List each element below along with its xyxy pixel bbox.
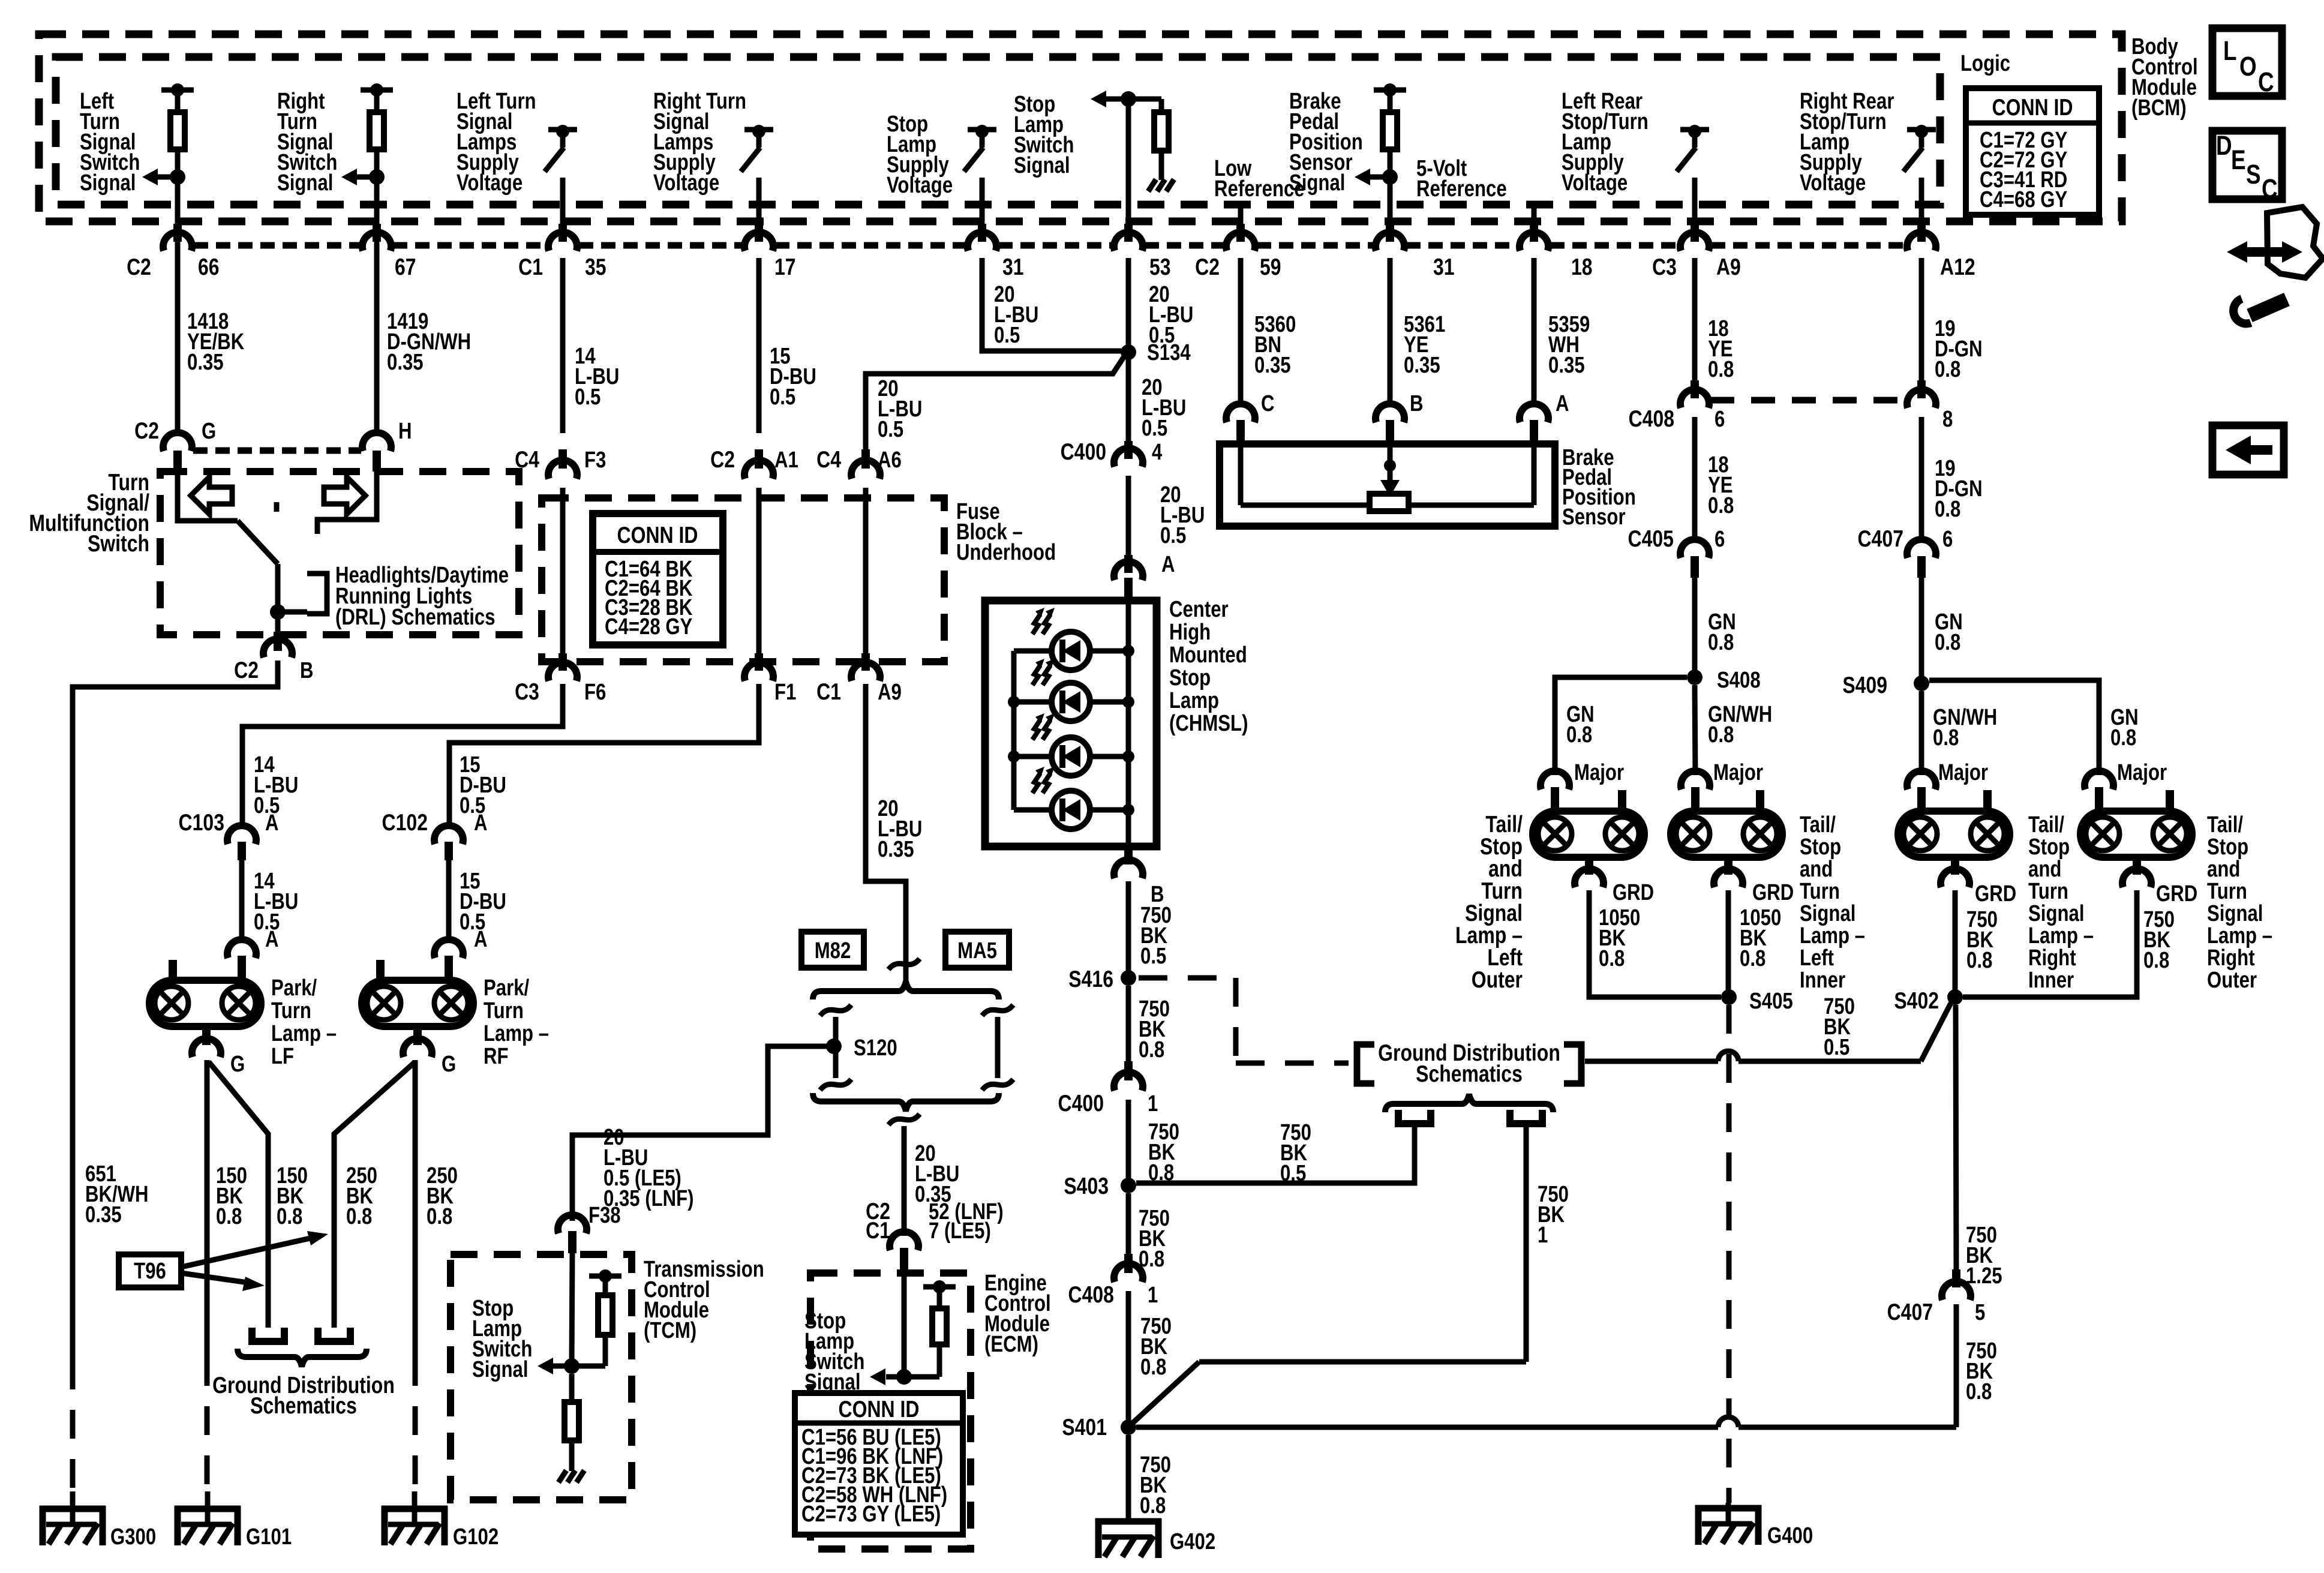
labels C2 C1 52(LNF) 7(LE5)	[866, 1198, 1003, 1244]
wire S409 to lamp right inner	[1919, 691, 1924, 775]
svg-text:Voltage: Voltage	[887, 173, 953, 198]
svg-text:Sensor: Sensor	[1562, 505, 1626, 530]
dashed link C408 6-8	[1710, 397, 1906, 404]
node DRL tap junction	[270, 604, 286, 620]
svg-text:Schematics: Schematics	[1416, 1061, 1523, 1087]
svg-text:GRD: GRD	[2156, 881, 2197, 906]
label G (LF)	[230, 1052, 245, 1077]
label wire 20 L-BU 0.5 (pin53)	[1149, 282, 1193, 348]
svg-text:Inner: Inner	[1800, 968, 1845, 993]
label Left Turn Signal Lamps Supply Voltage	[457, 89, 536, 196]
terminal GDS B	[1510, 1110, 1542, 1124]
module box CHMSL	[985, 601, 1157, 846]
ground internal BCM (stop lamp pull-down)	[1148, 179, 1174, 191]
svg-text:4: 4	[1152, 440, 1163, 465]
label G400	[1767, 1523, 1813, 1548]
svg-text:Stop: Stop	[1169, 665, 1211, 691]
svg-text:A: A	[474, 810, 488, 836]
label wire 750 BK 0.8 (ro)	[2143, 907, 2175, 973]
svg-text:S409: S409	[1842, 672, 1887, 698]
svg-text:0.35: 0.35	[1548, 353, 1585, 378]
wire fuse internal F3-F6	[560, 488, 566, 653]
svg-text:1: 1	[1148, 1091, 1158, 1116]
label wire 5361 YE 0.35	[1404, 312, 1445, 378]
label 8	[1942, 407, 1953, 432]
icon right-turn hollow arrow	[324, 477, 365, 514]
switch right turn signal lamps supply (BCM driver)	[741, 125, 773, 251]
label wire GN 0.8 (ro)	[2110, 705, 2139, 751]
svg-text:Voltage: Voltage	[1800, 170, 1866, 196]
table BCM CONN ID	[1966, 88, 2099, 215]
label wire 750 BK 1.25	[1966, 1223, 2002, 1289]
svg-text:Underhood: Underhood	[956, 540, 1056, 565]
svg-text:A9: A9	[878, 680, 902, 705]
label Ground Distribution Schematics (right)	[1378, 1040, 1560, 1087]
svg-text:C1: C1	[518, 254, 543, 280]
svg-text:and: and	[2028, 857, 2061, 882]
brace lower (M82/MA5)	[813, 1093, 999, 1111]
svg-text:0.35: 0.35	[1254, 353, 1291, 378]
svg-text:Signal: Signal	[277, 170, 333, 196]
label A (C102 pin)	[474, 810, 488, 836]
svg-text:G300: G300	[110, 1524, 156, 1550]
label G101	[246, 1524, 292, 1550]
svg-text:(ECM): (ECM)	[984, 1332, 1038, 1357]
svg-text:Voltage: Voltage	[1562, 170, 1628, 196]
svg-text:C400: C400	[1058, 1090, 1104, 1116]
svg-text:Switch: Switch	[88, 530, 149, 557]
brace GDS right	[1385, 1094, 1553, 1112]
labels C400 4	[1061, 439, 1163, 465]
svg-text:0.8: 0.8	[1935, 497, 1960, 522]
svg-text:(DRL) Schematics: (DRL) Schematics	[335, 605, 496, 630]
table Fuse Block CONN ID	[593, 514, 723, 645]
wire C405-6 to S408	[1692, 578, 1698, 677]
wire S403 to terminal A	[1136, 1126, 1415, 1183]
svg-text:0.35: 0.35	[387, 350, 424, 375]
label wire 20 L-BU 0.35 (ECM)	[915, 1141, 959, 1207]
splice S408	[1687, 670, 1703, 685]
label wire 14 L-BU 0.5 (pin35)	[575, 344, 619, 410]
wire pin 18 (5-volt ref)	[1530, 205, 1538, 242]
svg-text:S402: S402	[1894, 987, 1939, 1014]
icon left-turn hollow arrow	[191, 477, 232, 514]
connector CHMSL pin A	[1114, 562, 1143, 600]
icon wrench	[2233, 299, 2287, 323]
svg-text:0.8: 0.8	[1139, 1037, 1164, 1062]
wire pin35 to fuse F3	[560, 258, 566, 433]
connector C3 pin F6 (fuse bottom)	[548, 653, 577, 681]
wire A9fuse to M82 assembly	[866, 684, 906, 985]
wire S134 branch to fuse A6	[866, 356, 1124, 451]
svg-text:Stop: Stop	[2028, 834, 2070, 860]
label A (C103 pin)	[265, 810, 279, 836]
label Right Rear Stop/Turn Lamp Supply Voltage	[1800, 89, 1894, 196]
wire lamp-ri GRD to S402	[1953, 890, 1958, 990]
svg-text:C407: C407	[1858, 526, 1903, 552]
wire fuse internal A6-A9	[863, 488, 869, 653]
label Park/Turn Lamp - LF	[271, 975, 337, 1069]
terminal ground-distribution left A	[252, 1328, 284, 1341]
label Stop Lamp Supply Voltage	[887, 112, 953, 198]
svg-text:MA5: MA5	[957, 938, 997, 963]
connector tail lamp 2 pin Major	[1681, 771, 1710, 810]
svg-text:G: G	[442, 1052, 456, 1077]
wire pin 67	[373, 177, 381, 433]
labels fuse top connectors	[515, 446, 902, 473]
svg-text:M82: M82	[815, 938, 851, 963]
svg-text:E: E	[2231, 145, 2246, 175]
connector C2 pin B	[263, 632, 292, 658]
svg-text:Turn: Turn	[271, 998, 311, 1023]
svg-text:Logic: Logic	[1960, 51, 2010, 76]
wire LF-G to terminal (150 BK)	[209, 1062, 268, 1328]
svg-text:0.8: 0.8	[1935, 357, 1960, 382]
svg-text:5: 5	[1975, 1300, 1985, 1325]
bracket GDS left	[1357, 1044, 1374, 1083]
lamp tail/stop left outer	[1533, 790, 1644, 857]
labels C407 6	[1858, 526, 1953, 552]
svg-text:31: 31	[1433, 254, 1455, 280]
connector tail lamp GRD (li)	[1714, 857, 1743, 887]
lamp tail/stop left inner	[1671, 790, 1782, 857]
switch left rear stop/turn lamp supply (BCM driver)	[1677, 125, 1709, 251]
svg-text:0.35: 0.35	[187, 350, 224, 375]
svg-text:Reference: Reference	[1416, 176, 1507, 202]
label S416	[1068, 966, 1113, 992]
label A (lamp pin)	[265, 927, 279, 952]
svg-text:0.8: 0.8	[1966, 1379, 1992, 1404]
svg-text:1: 1	[1148, 1283, 1158, 1308]
splice hook above brace	[888, 959, 920, 969]
svg-text:S408: S408	[1717, 668, 1761, 693]
svg-text:1: 1	[1538, 1223, 1548, 1248]
svg-text:Voltage: Voltage	[457, 170, 523, 196]
wire S408 to lamp left outer	[1555, 677, 1687, 775]
connector C4 pin F3 (fuse top)	[548, 449, 577, 479]
wire to CHMSL A	[1124, 476, 1133, 573]
svg-text:67: 67	[395, 254, 416, 280]
svg-text:Right: Right	[2207, 945, 2255, 971]
svg-text:Signal: Signal	[1800, 901, 1855, 926]
svg-text:C: C	[2262, 174, 2278, 204]
label Brake Pedal Position Sensor Signal	[1289, 89, 1363, 196]
svg-text:F38: F38	[588, 1203, 621, 1228]
labels C405 6	[1628, 526, 1725, 552]
svg-text:0.5: 0.5	[770, 385, 795, 410]
svg-text:A: A	[265, 927, 279, 952]
wire RF-G dashed to G102	[413, 1357, 418, 1491]
connector F38	[558, 1215, 587, 1253]
label wire GN/WH 0.8 (ri)	[1933, 705, 1997, 751]
callout box LOC	[2212, 28, 2282, 97]
resistor ECM pull-up	[904, 1280, 956, 1377]
svg-text:F6: F6	[584, 680, 606, 705]
svg-text:53: 53	[1149, 254, 1171, 280]
wire RF-G to terminal (250 BK)	[334, 1062, 415, 1328]
terminal ground-distribution left B	[318, 1328, 350, 1341]
lamp tail/stop right outer	[2080, 790, 2192, 857]
svg-text:CONN ID: CONN ID	[839, 1396, 920, 1422]
labels C2 G H	[134, 418, 412, 444]
connector C103	[227, 825, 256, 860]
led CHMSL 2	[1032, 659, 1090, 721]
label Major 3	[1938, 760, 1988, 785]
label wire 5360 BN 0.35	[1254, 312, 1296, 378]
svg-text:High: High	[1169, 620, 1211, 645]
svg-text:A1: A1	[774, 448, 798, 473]
label Stop Lamp Switch Signal (ECM)	[804, 1308, 864, 1395]
svg-text:T96: T96	[134, 1259, 166, 1284]
svg-text:0.8: 0.8	[2110, 725, 2136, 751]
wire S402 diagonal to GDS	[1585, 1003, 1951, 1061]
label wire 750 BK 0.5 (s402)	[1824, 994, 1855, 1060]
table ECM CONN ID	[795, 1393, 963, 1535]
svg-text:C4=28 GY: C4=28 GY	[605, 614, 692, 640]
svg-text:0.8: 0.8	[216, 1204, 242, 1229]
svg-text:0.8: 0.8	[1708, 722, 1734, 748]
svg-text:LF: LF	[271, 1044, 294, 1069]
label G300	[110, 1524, 156, 1550]
connector C408 pin 8	[1907, 380, 1936, 408]
svg-text:Lamp –: Lamp –	[484, 1021, 549, 1046]
ground G300	[40, 1491, 106, 1545]
label Headlights/Daytime Running Lights (DRL) Schematics	[335, 563, 509, 630]
svg-text:C405: C405	[1628, 526, 1674, 552]
connector C408 pin 6	[1680, 380, 1709, 408]
label wire 5359 WH 0.35	[1548, 312, 1590, 378]
label A (lamp pin RF)	[474, 927, 488, 952]
node ECM junction + arrow	[870, 1368, 912, 1385]
labels C2 B	[234, 657, 313, 683]
label F38	[588, 1203, 621, 1228]
switch right rear stop/turn lamp supply (BCM driver)	[1903, 125, 1936, 251]
svg-text:(TCM): (TCM)	[644, 1318, 696, 1343]
wire S405 dashed to G400	[1727, 1005, 1732, 1503]
label S401	[1062, 1414, 1107, 1440]
wire S401 to C407-5 corner	[1136, 1269, 1960, 1427]
label Fuse Block - Underhood	[956, 499, 1056, 565]
wire C407-5 to S402	[1956, 1005, 1956, 1269]
svg-text:0.8: 0.8	[346, 1204, 372, 1229]
svg-text:S134: S134	[1147, 340, 1191, 365]
splice S401	[1121, 1419, 1136, 1435]
wire pin31b to BPPS B	[1388, 258, 1393, 407]
svg-text:S: S	[2246, 160, 2261, 190]
label Right Turn Signal Lamps Supply Voltage	[653, 89, 746, 196]
connector C400 pin 4	[1114, 441, 1143, 467]
svg-text:C4=68 GY: C4=68 GY	[1980, 187, 2067, 212]
label C102	[382, 809, 428, 836]
brace ground distribution left	[238, 1349, 367, 1367]
led CHMSL 4	[1032, 767, 1090, 829]
resistor stop lamp switch pull-up (BCM)	[1154, 99, 1169, 180]
module box TCM dashed	[451, 1254, 632, 1500]
switch centre mark	[274, 502, 280, 512]
svg-text:Park/: Park/	[484, 975, 530, 1001]
label Major 2	[1713, 760, 1763, 785]
switch contact stub (H side)	[317, 472, 377, 534]
svg-text:CONN ID: CONN ID	[1992, 94, 2073, 121]
label wire 15 D-BU 0.5 (upper)	[460, 752, 506, 818]
splice S409	[1914, 676, 1929, 691]
svg-text:Tail/: Tail/	[2028, 812, 2064, 837]
svg-text:17: 17	[774, 254, 796, 280]
splice S403	[1121, 1178, 1136, 1193]
label wire 1419 D-GN/WH 0.35	[387, 309, 471, 375]
ground TCM internal	[559, 1470, 584, 1482]
svg-text:0.8: 0.8	[1966, 948, 1992, 973]
wire lamp-li GRD to S405	[1726, 890, 1731, 990]
svg-text:RF: RF	[484, 1044, 509, 1069]
labels BCM connector pins	[127, 254, 1975, 280]
splice S120	[826, 1038, 842, 1054]
svg-text:Right: Right	[2028, 945, 2076, 971]
switch multifunction common blade	[178, 472, 278, 564]
wire DRL tap	[278, 610, 307, 615]
connector C405 pin 6	[1680, 539, 1709, 578]
svg-text:Park/: Park/	[271, 975, 317, 1001]
wire pin31 to S134	[982, 258, 1121, 351]
svg-text:6: 6	[1942, 527, 1953, 552]
wire C407-6 to S409	[1919, 578, 1924, 683]
node stop lamp switch signal junction	[1121, 91, 1136, 107]
svg-text:C: C	[1261, 391, 1275, 416]
label S402	[1894, 987, 1939, 1014]
svg-text:35: 35	[585, 254, 606, 280]
label S134	[1147, 340, 1191, 365]
svg-text:A: A	[1161, 552, 1175, 577]
connector inline M82 branch	[820, 1005, 851, 1090]
module box BCM outer dashed border	[39, 34, 2122, 221]
label Transmission Control Module (TCM)	[644, 1257, 764, 1343]
connector tail lamp 3 pin Major	[1907, 771, 1936, 810]
label wire 150 BK 0.8 (b)	[277, 1163, 308, 1229]
label Turn Signal/Multifunction Switch	[29, 469, 149, 557]
wire CHMSL right bus	[1126, 601, 1131, 846]
svg-text:Outer: Outer	[2207, 968, 2257, 993]
labels GRD	[1613, 880, 2197, 906]
svg-text:0.8: 0.8	[1708, 493, 1734, 518]
svg-text:0.8: 0.8	[1708, 630, 1734, 655]
wire pin 59 (low reference)	[1236, 205, 1245, 242]
wire pin59 to BPPS C	[1238, 258, 1244, 407]
label B	[1151, 882, 1164, 907]
svg-text:C408: C408	[1068, 1281, 1114, 1308]
wire F6 to C103	[242, 684, 563, 825]
svg-text:Turn: Turn	[484, 998, 524, 1023]
svg-text:6: 6	[1715, 527, 1725, 552]
svg-text:0.5: 0.5	[1140, 944, 1166, 969]
label wire GN 0.8 (lo)	[1566, 702, 1595, 748]
connector CHMSL pin B	[1114, 846, 1143, 878]
bracket DRL reference	[307, 574, 327, 614]
connector ECM C2/C1	[890, 1232, 918, 1272]
svg-text:0.5: 0.5	[994, 323, 1020, 348]
svg-text:Lamp –: Lamp –	[271, 1021, 337, 1046]
label wire 14 L-BU 0.5 (lower)	[254, 869, 298, 935]
svg-text:D: D	[2216, 131, 2232, 161]
label Major 1	[1574, 760, 1624, 785]
wire CHMSL left bus	[1011, 651, 1017, 810]
wire blade to C2-B	[275, 564, 281, 632]
splice S416	[1121, 970, 1136, 986]
svg-text:and: and	[1800, 857, 1833, 882]
label Low Reference	[1214, 156, 1305, 202]
label wire 20 L-BU 0.35	[878, 796, 922, 862]
module box Turn Signal/Multifunction Switch dashed	[160, 472, 519, 635]
wire S408 to lamp left inner	[1695, 685, 1695, 775]
svg-text:0.8: 0.8	[1566, 722, 1592, 748]
svg-text:C408: C408	[1629, 406, 1674, 432]
label S120	[854, 1035, 897, 1061]
svg-text:and: and	[2207, 857, 2240, 882]
svg-text:0.35: 0.35	[878, 837, 914, 862]
switch left turn signal lamps supply (BCM driver)	[545, 125, 577, 251]
label G102	[453, 1524, 499, 1550]
label Tail/Stop Left Outer	[1455, 811, 1523, 993]
label wire GN 0.8 (s408)	[1708, 610, 1736, 655]
wire pin 31b	[1386, 177, 1394, 242]
connector C2 pin A1 (fuse top)	[744, 449, 773, 479]
svg-text:C103: C103	[179, 809, 224, 836]
svg-text:S416: S416	[1068, 966, 1113, 992]
connector C407 pin 5	[1942, 1281, 1971, 1300]
svg-text:Lamp –: Lamp –	[2207, 923, 2272, 948]
wire A12 down	[1919, 258, 1924, 380]
label Stop Lamp Switch Signal (TCM)	[472, 1296, 532, 1382]
svg-text:GRD: GRD	[1613, 880, 1654, 905]
connector interface dotted line (BCM C1/C2/C3)	[194, 242, 1905, 249]
wire CHMSL-B to S416	[1126, 881, 1131, 978]
label Left Rear Stop/Turn Lamp Supply Voltage	[1562, 89, 1649, 196]
arrow T96 upper	[181, 1231, 328, 1267]
lamp Park/Turn RF	[362, 960, 473, 1026]
label wire 19 D-GN 0.8 (2)	[1935, 456, 1983, 522]
resistor right turn signal switch (BCM)	[361, 83, 393, 178]
svg-text:Turn: Turn	[2207, 879, 2247, 904]
label wire 750 BK 0.5 (s403)	[1280, 1120, 1311, 1186]
svg-text:Signal: Signal	[80, 170, 136, 196]
connector BPPS pin C	[1226, 404, 1255, 444]
svg-text:G101: G101	[246, 1524, 292, 1550]
svg-text:0.8: 0.8	[1140, 1493, 1166, 1518]
label wire 750 BK 0.8 (ri)	[1966, 907, 1998, 973]
label Logic	[1960, 51, 2010, 76]
wire S409 to lamp right outer	[1929, 680, 2099, 775]
label Center High Mounted Stop Lamp (CHMSL)	[1169, 597, 1248, 736]
svg-text:0.5: 0.5	[1142, 416, 1167, 441]
led CHMSL 1	[1032, 608, 1090, 670]
svg-text:0.5: 0.5	[1160, 523, 1186, 548]
connector lamp LF pin A	[227, 939, 256, 978]
label 5-Volt Reference	[1416, 156, 1507, 202]
label Tail/Stop Right Inner	[2028, 812, 2094, 993]
resistor TCM lower	[565, 1374, 579, 1471]
wire fuse internal A1-F1	[756, 488, 762, 653]
svg-text:0.5: 0.5	[878, 417, 903, 442]
svg-text:C400: C400	[1061, 439, 1106, 465]
terminal GDS A	[1398, 1110, 1431, 1124]
svg-text:0.35: 0.35	[85, 1202, 122, 1227]
label wire 1050 BK 0.8 (li)	[1740, 905, 1781, 971]
wire pin17 to fuse A1	[756, 258, 762, 433]
callout box T96	[119, 1254, 181, 1287]
svg-text:1.25: 1.25	[1966, 1263, 2002, 1289]
label S408	[1717, 668, 1761, 693]
ground G400	[1695, 1503, 1761, 1545]
connector pin F1 (fuse bottom)	[744, 653, 773, 681]
